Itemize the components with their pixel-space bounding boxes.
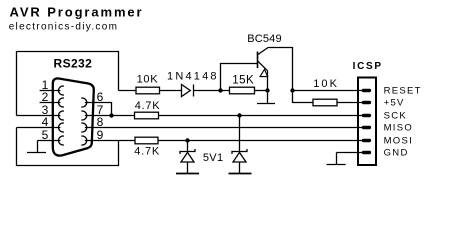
svg-text:RS232: RS232: [54, 56, 93, 70]
svg-text:4.7K: 4.7K: [134, 146, 160, 158]
svg-text:RESET: RESET: [384, 85, 422, 96]
svg-text:MISO: MISO: [384, 122, 413, 133]
svg-text:4.7K: 4.7K: [135, 100, 161, 112]
svg-text:6: 6: [97, 90, 104, 104]
svg-text:BC549: BC549: [247, 33, 282, 45]
svg-text:GND: GND: [384, 147, 409, 158]
svg-text:electronics-diy.com: electronics-diy.com: [9, 22, 119, 33]
svg-text:MOSI: MOSI: [384, 135, 413, 146]
svg-text:10K: 10K: [313, 78, 339, 90]
svg-text:10K: 10K: [137, 74, 159, 86]
svg-text:ICSP: ICSP: [353, 61, 383, 72]
svg-text:2: 2: [42, 90, 49, 104]
svg-text:5: 5: [42, 128, 49, 142]
svg-text:9: 9: [97, 128, 104, 142]
svg-text:SCK: SCK: [384, 110, 407, 121]
svg-text:4: 4: [42, 115, 49, 129]
svg-text:+5V: +5V: [384, 97, 405, 108]
svg-text:5V1: 5V1: [203, 152, 223, 164]
svg-text:1N4148: 1N4148: [167, 71, 219, 83]
svg-text:AVR Programmer: AVR Programmer: [10, 5, 144, 20]
svg-text:15K: 15K: [232, 75, 254, 87]
svg-text:8: 8: [97, 115, 104, 129]
